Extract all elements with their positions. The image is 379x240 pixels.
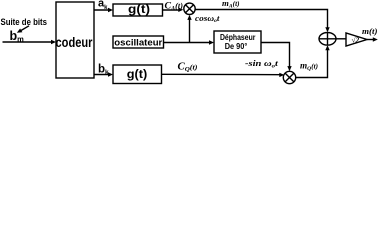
arrowhead CA into M1 bbox=[178, 8, 183, 12]
wire M2 output mQ(t) bbox=[296, 47, 328, 78]
arrowhead osc to M1 bbox=[187, 15, 191, 20]
arrowhead CQ into M2 bbox=[279, 73, 284, 77]
arrowhead mA into summer bbox=[325, 27, 329, 32]
amplifier A1 bbox=[346, 33, 367, 46]
wire ak bbox=[94, 9, 111, 11]
filter box g(t) bottom bbox=[113, 65, 162, 84]
wire input bm bbox=[3, 41, 55, 43]
arrowhead ak bbox=[108, 8, 113, 12]
wire oscillator to M1 bbox=[189, 17, 191, 43]
wire bk bbox=[94, 74, 111, 76]
wire M1 output mA(t) bbox=[195, 10, 327, 31]
svg-text:De 90°: De 90° bbox=[225, 42, 248, 51]
phase shifter box bbox=[214, 31, 261, 53]
oscillator box bbox=[113, 36, 164, 48]
multiplier M1 bbox=[184, 3, 195, 14]
wire CQ(t) bbox=[162, 73, 283, 75]
arrowhead mQ into summer bbox=[325, 45, 329, 50]
svg-text:g(t): g(t) bbox=[127, 67, 148, 81]
arrowhead output m(t) bbox=[373, 37, 378, 41]
arrowhead bk bbox=[108, 72, 113, 76]
multiplier M2 bbox=[283, 71, 295, 83]
wire output m(t) bbox=[367, 39, 376, 41]
svg-text:Suite de bits: Suite de bits bbox=[1, 17, 48, 27]
wire annotation arrow Suite de bits bbox=[21, 26, 29, 31]
svg-text:cosωot: cosωot bbox=[195, 14, 220, 24]
wire summer to amplifier bbox=[336, 38, 346, 40]
svg-text:oscillateur: oscillateur bbox=[114, 38, 163, 48]
arrowhead phase shifter to M2 bbox=[287, 66, 291, 71]
wire CA(t) bbox=[163, 9, 181, 11]
svg-text:g(t): g(t) bbox=[128, 2, 150, 16]
svg-text:m(t): m(t) bbox=[362, 26, 378, 36]
svg-text:√2: √2 bbox=[352, 36, 360, 44]
arrowhead input bm bbox=[51, 40, 56, 44]
filter box g(t) top bbox=[113, 4, 163, 16]
summer S1 bbox=[319, 33, 336, 46]
codeur box bbox=[56, 2, 94, 78]
wire phase shifter to M2 bbox=[261, 43, 290, 70]
wire oscillator to phase shifter bbox=[164, 42, 212, 44]
arrowhead into phase shifter bbox=[209, 40, 214, 44]
svg-text:codeur: codeur bbox=[56, 34, 93, 50]
arrowhead annotation bbox=[17, 29, 23, 33]
